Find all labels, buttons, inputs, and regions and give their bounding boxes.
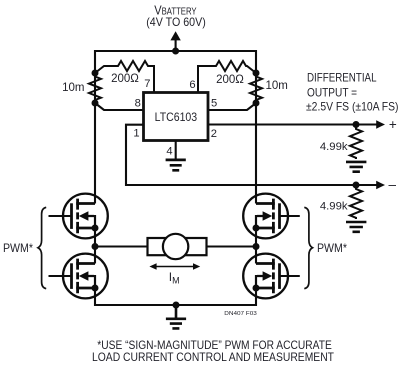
svg-text:200Ω: 200Ω bbox=[111, 73, 139, 85]
svg-text:(4V TO 60V): (4V TO 60V) bbox=[146, 15, 206, 29]
minus output arrowhead bbox=[376, 181, 385, 189]
motor left brush box bbox=[148, 238, 174, 255]
motor body circle bbox=[163, 234, 188, 259]
svg-text:4.99k: 4.99k bbox=[320, 141, 348, 153]
node left bridge midpoint dot bbox=[92, 243, 99, 250]
svg-text:10m: 10m bbox=[62, 82, 84, 94]
node plus output dot bbox=[353, 121, 360, 128]
resistor left 10m bbox=[89, 77, 101, 100]
resistor right 200 ohm with leads to pin 6 bbox=[198, 61, 256, 93]
svg-text:IM: IM bbox=[169, 270, 180, 286]
node bottom ground dot bbox=[173, 302, 180, 309]
ground upper output bbox=[346, 162, 366, 172]
svg-text:PWM*: PWM* bbox=[317, 242, 347, 255]
op-amp U1 LTC6103 body bbox=[144, 93, 209, 141]
svg-text:6: 6 bbox=[189, 79, 195, 91]
svg-text:LTC6103: LTC6103 bbox=[155, 110, 198, 124]
motor right brush box bbox=[181, 238, 207, 255]
wire top rail and side rails upper run bbox=[95, 51, 256, 204]
wire pin 1 to minus output bbox=[126, 125, 377, 185]
wire pin 4 lead bbox=[175, 141, 177, 160]
wire left rail mid and bottom segments bbox=[95, 228, 256, 305]
svg-text:5: 5 bbox=[211, 97, 217, 109]
svg-text:4: 4 bbox=[166, 145, 172, 157]
plus output arrowhead bbox=[376, 120, 385, 128]
wire motor left lead bbox=[95, 245, 148, 247]
node left sense bottom dot bbox=[92, 100, 99, 107]
svg-text:+: + bbox=[389, 117, 397, 132]
transistor Q3 top-right MOSFET bbox=[243, 194, 288, 239]
svg-text:–: – bbox=[389, 177, 397, 192]
resistor right 10m bbox=[250, 77, 262, 100]
svg-text:DN407 F03: DN407 F03 bbox=[224, 311, 256, 317]
svg-text:OUTPUT =: OUTPUT = bbox=[307, 87, 357, 100]
node right sense top dot bbox=[253, 70, 260, 77]
svg-text:7: 7 bbox=[144, 78, 150, 90]
node right bridge midpoint dot bbox=[253, 243, 260, 250]
node left sense top dot bbox=[92, 70, 99, 77]
svg-text:1: 1 bbox=[133, 127, 139, 139]
svg-text:±2.5V FS (±10A FS): ±2.5V FS (±10A FS) bbox=[306, 101, 399, 114]
wire motor right lead bbox=[206, 245, 256, 247]
ground pin 4 bbox=[166, 160, 186, 170]
svg-text:10m: 10m bbox=[266, 80, 288, 92]
brace left PWM bbox=[38, 207, 46, 288]
node VBATTERY junction dot bbox=[172, 48, 179, 55]
IM current arrow bbox=[152, 266, 198, 268]
wire pin 5 lead bbox=[208, 103, 256, 110]
svg-text:DIFFERENTIAL: DIFFERENTIAL bbox=[307, 72, 377, 85]
node right sense bottom dot bbox=[253, 100, 260, 107]
svg-text:4.99k: 4.99k bbox=[320, 201, 348, 213]
wire Q2 gate lead bbox=[49, 275, 73, 277]
transistor Q4 bottom-right MOSFET bbox=[243, 254, 288, 299]
wire pin 8 lead bbox=[95, 103, 144, 110]
svg-text:200Ω: 200Ω bbox=[216, 74, 244, 86]
resistor left 200 ohm with leads to pin 7 bbox=[95, 61, 154, 93]
svg-text:8: 8 bbox=[135, 97, 141, 109]
transistor Q1 top-left MOSFET bbox=[63, 194, 108, 239]
VBATTERY supply arrow bbox=[175, 40, 177, 51]
svg-text:2: 2 bbox=[211, 128, 217, 140]
ground lower output bbox=[346, 222, 366, 232]
wire Q3 gate lead bbox=[280, 215, 300, 217]
wire Q4 gate lead bbox=[280, 275, 300, 277]
resistor upper 4.99k bbox=[350, 125, 362, 160]
ground bottom rail bbox=[166, 305, 186, 328]
node minus output dot bbox=[353, 182, 360, 189]
wire pin 2 to plus output bbox=[208, 123, 377, 125]
svg-text:LOAD CURRENT CONTROL AND MEASU: LOAD CURRENT CONTROL AND MEASUREMENT bbox=[92, 350, 335, 364]
transistor Q2 bottom-left MOSFET bbox=[63, 254, 108, 299]
wire Q1 gate lead bbox=[49, 215, 73, 217]
resistor lower 4.99k bbox=[350, 185, 362, 219]
brace right PWM bbox=[304, 207, 312, 288]
svg-text:PWM*: PWM* bbox=[3, 242, 33, 255]
